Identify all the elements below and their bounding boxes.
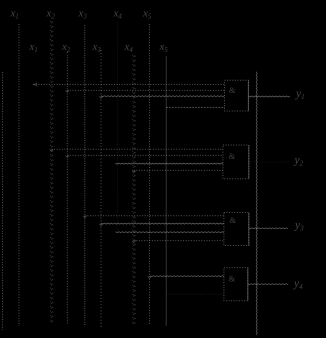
wire column x3 — [100, 50, 102, 327]
wire column x4 — [132, 55, 135, 324]
wire column x4 bar faint — [117, 22, 119, 233]
node junction at 67.3,156.5 — [66, 155, 70, 157]
svg-text:x4: x4 — [113, 8, 123, 21]
op-amp U2 AND gate DD2 — [223, 145, 249, 179]
wire gate1 input 3 — [101, 96, 225, 97]
wire gate3 output to y3 — [249, 228, 288, 229]
wire column far-left unlabeled — [2, 72, 4, 330]
wire gate3 input 1 — [85, 215, 224, 217]
node junction at 67.3,91.5 — [66, 90, 70, 92]
wire column x2 bar — [50, 21, 53, 322]
wire gate2 output to y2 faint — [249, 161, 290, 163]
svg-text:&: & — [229, 85, 236, 95]
wire gate1 input 1 — [33, 84, 224, 86]
wire gate4 output to y4 — [248, 284, 288, 285]
wire output bus vertical — [256, 72, 257, 335]
node junction at 133.7,242 — [132, 241, 136, 243]
node start arrow of gate1 input1 — [34, 83, 38, 86]
svg-text:x2: x2 — [61, 41, 71, 54]
wire gate2 input 1 — [51, 148, 223, 150]
wire gate1 input 2 — [67, 89, 224, 91]
wire gate2 input 4 — [134, 169, 223, 171]
svg-text:x1: x1 — [10, 8, 19, 21]
svg-text:x3: x3 — [78, 8, 88, 21]
op-amp U4 AND gate DD4 — [224, 268, 248, 301]
op-amp U3 AND gate DD3 — [224, 213, 249, 246]
svg-text:x3: x3 — [92, 41, 102, 54]
svg-text:&: & — [230, 215, 237, 225]
wire gate2 input 3 — [116, 163, 223, 164]
node junction at 133.7,171.8 — [132, 171, 136, 173]
node junction at 101,97.5 — [99, 96, 103, 98]
wire column x2 — [66, 52, 68, 325]
wire gate2 input 2 — [67, 154, 223, 156]
wire gate3 input 2 — [101, 223, 224, 224]
svg-text:y3: y3 — [294, 220, 304, 233]
wire gate4 input 2 faint — [166, 293, 224, 295]
wire gate4 input 1 — [150, 276, 224, 277]
wire column x3 bar — [84, 25, 86, 326]
svg-text:y2: y2 — [294, 155, 304, 168]
wire column x1 bar — [18, 24, 20, 326]
svg-text:&: & — [229, 274, 236, 284]
node junction at 84.8,217 — [83, 216, 87, 218]
wire gate1 input 4 — [166, 106, 224, 108]
svg-text:x1: x1 — [29, 41, 38, 54]
svg-text:y1: y1 — [295, 88, 305, 101]
node junction at 101,225 — [99, 224, 103, 226]
wire gate1 output to y1 — [248, 96, 290, 97]
node junction at 149.5,277.5 — [148, 276, 152, 278]
svg-text:x5: x5 — [159, 41, 169, 54]
wire gate3 input 4 — [134, 240, 224, 242]
wire column x5 solid — [165, 56, 167, 326]
node junction at 51.4,150.5 — [50, 149, 54, 151]
svg-text:&: & — [229, 151, 236, 161]
wire column x5 bar — [149, 24, 151, 325]
wire gate3 input 3 — [116, 232, 224, 233]
op-amp U1 AND gate DD1 — [225, 80, 249, 111]
svg-text:y4: y4 — [293, 278, 303, 291]
svg-text:x4: x4 — [124, 41, 134, 54]
svg-text:x5: x5 — [142, 8, 152, 21]
svg-text:x2: x2 — [46, 8, 56, 21]
